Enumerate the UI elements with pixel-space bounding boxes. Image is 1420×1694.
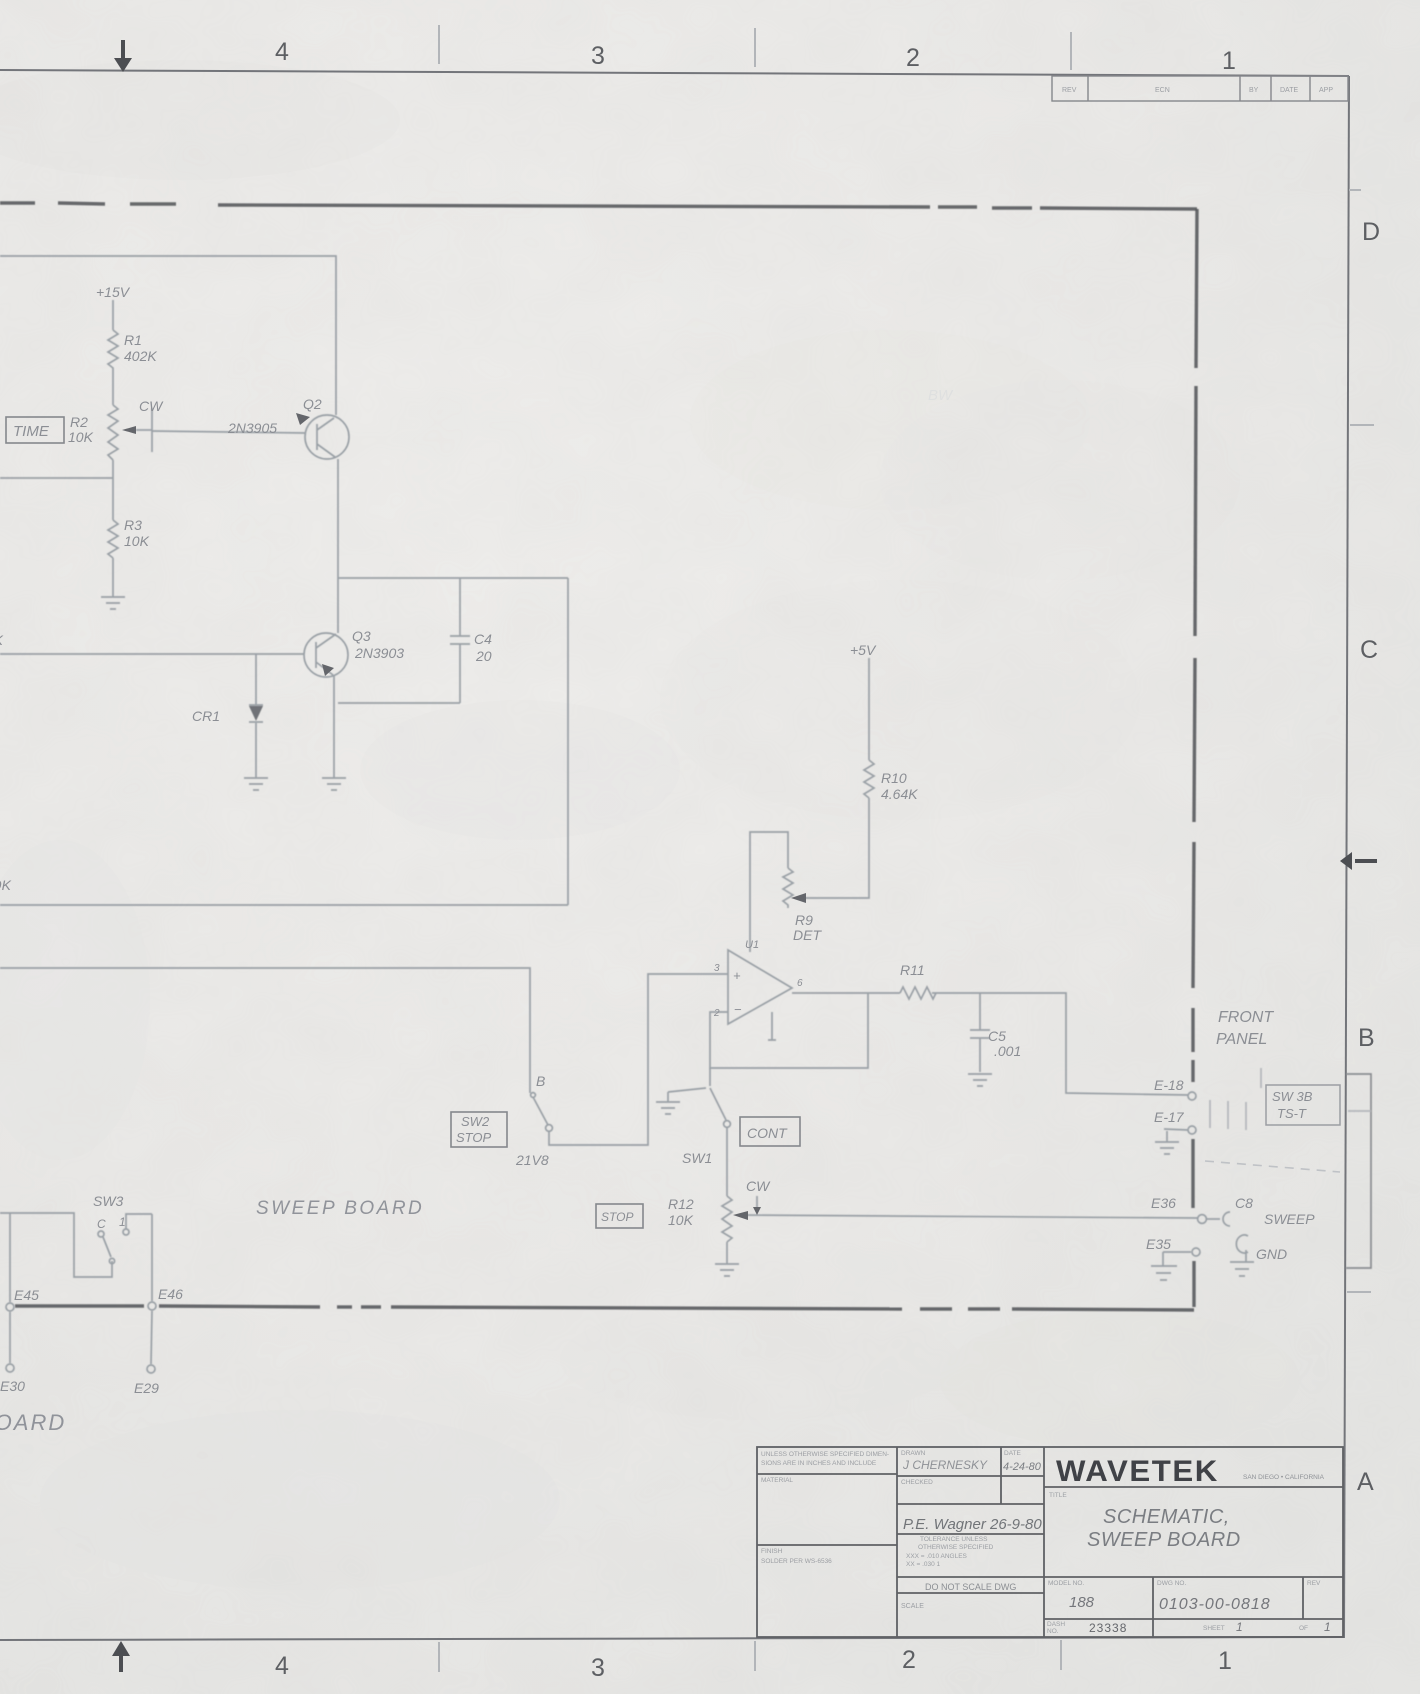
capacitor C5 (979, 993, 981, 1030)
CW arrowhead R12 (753, 1207, 761, 1215)
svg-text:R11: R11 (900, 962, 925, 978)
svg-text:UNLESS OTHERWISE SPECIFIED DIM: UNLESS OTHERWISE SPECIFIED DIMEN- (761, 1451, 889, 1458)
svg-text:ECN: ECN (1155, 87, 1170, 94)
zone tick top 2|1 (1070, 32, 1072, 70)
wire: C4 bottom rail (338, 702, 460, 704)
svg-text:402K: 402K (124, 348, 157, 364)
svg-text:10K: 10K (68, 429, 94, 445)
svg-text:1: 1 (1324, 1620, 1331, 1634)
wiper arrow R2 (136, 429, 152, 431)
column dividers (896, 1447, 898, 1637)
right border line (1344, 76, 1349, 1638)
top border line (0, 70, 1349, 76)
svg-text:SW3: SW3 (93, 1193, 124, 1209)
svg-text:CHECKED: CHECKED (901, 1479, 933, 1486)
resistor R10 (864, 760, 874, 798)
svg-text:SWEEP BOARD: SWEEP BOARD (1087, 1529, 1241, 1551)
svg-text:BW: BW (928, 387, 954, 404)
bottom border line (0, 1637, 1344, 1640)
connector E-18 (1188, 1092, 1196, 1100)
diode CR1 (249, 705, 263, 722)
svg-text:BOARD: BOARD (0, 1410, 66, 1435)
connector E30 (6, 1364, 14, 1372)
op-amp U1 (728, 950, 792, 1024)
svg-text:DO NOT SCALE DWG: DO NOT SCALE DWG (925, 1582, 1016, 1592)
svg-text:TIME: TIME (13, 423, 50, 440)
svg-text:E46: E46 (158, 1286, 183, 1302)
label SW 3B box (1266, 1085, 1340, 1125)
transistor Q2 (305, 415, 349, 459)
svg-text:MATERIAL: MATERIAL (761, 1477, 793, 1484)
wire: Q3 emitter to ground (333, 675, 335, 778)
potentiometer R12 (722, 1196, 732, 1242)
wire: inverting input / feedback loop (710, 993, 868, 1068)
svg-text:1: 1 (1236, 1620, 1243, 1634)
svg-text:20: 20 (475, 648, 492, 664)
svg-text:C4: C4 (474, 631, 492, 647)
svg-text:PANEL: PANEL (1216, 1031, 1267, 1048)
resistor R11 (900, 987, 936, 999)
wire: R1 to R2 (112, 370, 114, 405)
svg-text:SW1: SW1 (682, 1150, 712, 1166)
svg-text:J CHERNESKY: J CHERNESKY (902, 1458, 988, 1472)
svg-text:21V8: 21V8 (515, 1152, 549, 1168)
svg-text:SW2: SW2 (461, 1114, 490, 1129)
svg-text:R12: R12 (668, 1196, 694, 1212)
wire: Q2 collector to Q3 collector (337, 459, 339, 633)
svg-text:E29: E29 (134, 1380, 159, 1396)
svg-text:3: 3 (714, 963, 720, 974)
svg-text:TOLERANCE UNLESS: TOLERANCE UNLESS (920, 1536, 988, 1543)
svg-text:CONT: CONT (747, 1125, 788, 1141)
alignment arrow top (114, 40, 132, 72)
svg-text:P.E. Wagner 26-9-80: P.E. Wagner 26-9-80 (903, 1516, 1042, 1533)
svg-text:SHEET: SHEET (1203, 1625, 1225, 1632)
zone tick top 3|2 (754, 28, 756, 67)
svg-text:DATE: DATE (1004, 1450, 1022, 1457)
revision table top right (1052, 76, 1348, 101)
svg-text:E36: E36 (1151, 1195, 1176, 1211)
wiper arrowhead R2 (122, 426, 136, 434)
svg-text:Q3: Q3 (352, 628, 371, 644)
svg-text:CW: CW (139, 398, 164, 414)
wire: ramp rail y578 (338, 577, 568, 579)
left column rows (757, 1473, 897, 1475)
svg-text:49K: 49K (0, 877, 12, 893)
svg-text:REV: REV (1307, 1580, 1321, 1587)
wire: R2 to R3 junction (112, 460, 114, 520)
svg-text:R3: R3 (124, 517, 142, 533)
svg-text:E-17: E-17 (1154, 1109, 1185, 1125)
svg-text:DASH: DASH (1047, 1621, 1065, 1628)
power +15V lead (112, 300, 114, 330)
ground below Q3 (322, 778, 346, 790)
wiper arrowhead R12 (733, 1211, 748, 1220)
ground below C5 (968, 1074, 992, 1086)
ground at SW1 (668, 1088, 706, 1102)
svg-text:3: 3 (591, 42, 605, 70)
svg-text:NO.: NO. (1047, 1628, 1059, 1635)
wire: rail y968 to SW2 (0, 968, 530, 1093)
wire: right dashed vertical (1196, 209, 1197, 368)
svg-text:WAVETEK: WAVETEK (1056, 1455, 1219, 1488)
wire: top dashed run (0, 201, 35, 204)
wire: SW1 to R12 (726, 1127, 728, 1196)
emitter arrow Q3 (322, 664, 334, 676)
svg-text:4: 4 (275, 38, 289, 66)
svg-text:E35: E35 (1146, 1236, 1171, 1252)
svg-text:C5: C5 (988, 1028, 1006, 1044)
wire: E45 drop (9, 1213, 11, 1302)
svg-text:188: 188 (1069, 1594, 1095, 1611)
wire: Q3 base rail (0, 653, 304, 655)
wire: R2 wiper to Q2 base (152, 431, 305, 433)
svg-text:+15V: +15V (96, 284, 131, 300)
zone tick top 4|3 (438, 25, 440, 64)
connector pins after E-18 (1210, 1068, 1261, 1130)
alignment arrow right (1340, 852, 1377, 870)
resistor R3 (108, 520, 118, 558)
svg-text:.001: .001 (994, 1043, 1021, 1059)
svg-text:1: 1 (119, 1215, 126, 1229)
svg-text:SCHEMATIC,: SCHEMATIC, (1103, 1506, 1230, 1528)
zone tick bottom 2|1 (1060, 1640, 1062, 1670)
svg-text:0103-00-0818: 0103-00-0818 (1159, 1596, 1271, 1613)
switch SW3 (98, 1231, 104, 1237)
front panel connector bracket (1346, 1074, 1371, 1268)
svg-text:FRONT: FRONT (1218, 1009, 1274, 1026)
svg-text:U1: U1 (745, 939, 759, 951)
svg-text:B: B (1358, 1024, 1375, 1052)
svg-text:R2: R2 (70, 414, 88, 430)
resistor R1 (108, 330, 118, 370)
svg-text:−: − (734, 1002, 742, 1017)
wire: long rail y905 (0, 904, 568, 906)
wire: E45 to E30 (9, 1312, 11, 1363)
connector E45 (6, 1303, 14, 1311)
svg-text:SIONS ARE IN INCHES AND INCLUD: SIONS ARE IN INCHES AND INCLUDE (761, 1460, 877, 1467)
CW arrow at R12 (756, 1196, 758, 1208)
svg-text:A: A (1357, 1468, 1374, 1496)
ground below CR1 (244, 778, 268, 790)
svg-text:R10: R10 (881, 770, 907, 786)
svg-text:2: 2 (713, 1008, 720, 1019)
svg-text:MODEL NO.: MODEL NO. (1048, 1580, 1084, 1587)
op-amp V- pin lead (768, 1012, 776, 1040)
middle column rows (897, 1475, 1044, 1477)
wiper arrowhead R9 (791, 893, 806, 903)
svg-text:SAN DIEGO • CALIFORNIA: SAN DIEGO • CALIFORNIA (1243, 1474, 1325, 1481)
svg-text:2: 2 (902, 1646, 916, 1674)
svg-text:GND: GND (1256, 1246, 1287, 1262)
ground below E35 (1162, 1252, 1164, 1266)
svg-text:2: 2 (906, 44, 920, 72)
wire: to E46 (151, 1214, 153, 1301)
svg-text:APP: APP (1319, 87, 1333, 94)
wire: faint dash divider (1205, 1161, 1340, 1172)
svg-text:+5V: +5V (850, 642, 877, 658)
connector E35 (1192, 1248, 1200, 1256)
svg-text:2N3903: 2N3903 (354, 645, 404, 661)
label CONT box (740, 1117, 800, 1146)
wire: bottom-left rail to SW3 (0, 1213, 112, 1277)
model / dwg numbers (1069, 1594, 1331, 1635)
svg-text:R1: R1 (124, 332, 142, 348)
svg-text:4: 4 (275, 1652, 289, 1680)
svg-text:1: 1 (1222, 47, 1236, 75)
svg-text:C8: C8 (1235, 1195, 1253, 1211)
wire: R12 wiper to E36 (740, 1215, 1197, 1218)
zone tick right D|C (1350, 424, 1374, 426)
wire: R3 to ground (112, 558, 114, 597)
svg-text:E-18: E-18 (1154, 1077, 1184, 1093)
switch SW1 (709, 1068, 711, 1086)
svg-text:6: 6 (797, 978, 803, 989)
wire: E46 to E29 (151, 1311, 152, 1364)
svg-text:R9: R9 (795, 912, 813, 928)
wire: R11 to E-18 (932, 993, 1188, 1095)
svg-text:CR1: CR1 (192, 708, 220, 724)
svg-text:DET: DET (793, 927, 822, 943)
ground below R12 (715, 1264, 739, 1276)
wire: CR1 branch (255, 654, 257, 705)
wire: C4 right vertical (567, 578, 569, 905)
svg-text:1: 1 (1218, 1647, 1232, 1675)
transistor Q3 (304, 633, 348, 677)
svg-text:FINISH: FINISH (761, 1548, 783, 1555)
svg-text:DWG NO.: DWG NO. (1157, 1580, 1186, 1587)
wire: R10 to R9 wiper (800, 798, 869, 898)
ground below R3 (101, 597, 125, 609)
svg-text:DATE: DATE (1280, 87, 1298, 94)
right section rows (1044, 1486, 1343, 1488)
svg-text:TS-T: TS-T (1277, 1106, 1307, 1121)
label STOP box (596, 1204, 643, 1228)
svg-text:SW 3B: SW 3B (1272, 1089, 1313, 1104)
svg-text:3: 3 (591, 1654, 605, 1682)
wire: left tap y478 (0, 477, 113, 479)
svg-text:+: + (733, 968, 741, 983)
svg-text:BY: BY (1249, 87, 1259, 94)
svg-text:C: C (97, 1217, 106, 1231)
potentiometer R9 (750, 832, 788, 952)
svg-text:XX = .030 1: XX = .030 1 (906, 1561, 941, 1568)
switch SW2 (531, 1093, 536, 1098)
svg-text:STOP: STOP (456, 1130, 491, 1145)
wire: CR1 to ground (255, 723, 257, 778)
svg-text:B: B (536, 1073, 545, 1089)
svg-text:OF: OF (1299, 1625, 1308, 1632)
svg-text:Q2: Q2 (303, 396, 322, 412)
alignment arrow bottom (112, 1641, 130, 1672)
svg-text:4-24-80: 4-24-80 (1003, 1461, 1042, 1473)
svg-text:XXX = .010 ANGLES: XXX = .010 ANGLES (906, 1553, 968, 1560)
wire: R12 to ground (726, 1242, 728, 1264)
potentiometer R2 (108, 405, 118, 460)
power +5V lead (868, 658, 870, 760)
svg-text:STOP: STOP (601, 1210, 633, 1224)
svg-text:SOLDER PER WS-6536: SOLDER PER WS-6536 (761, 1558, 832, 1565)
zone tick bottom 4|3 (438, 1642, 440, 1672)
hand written title (1087, 1506, 1241, 1551)
svg-text:4.64K: 4.64K (881, 786, 918, 802)
wire: SW2 to op-amp + input (549, 974, 728, 1145)
wire: top-left rail (0, 256, 336, 415)
svg-text:C: C (1360, 636, 1378, 664)
label SW2 STOP box (451, 1112, 507, 1147)
svg-text:SWEEP: SWEEP (1264, 1211, 1315, 1227)
ground below BNC (1230, 1262, 1254, 1276)
svg-text:10K: 10K (668, 1212, 694, 1228)
ground below E-17 (1166, 1131, 1168, 1142)
CW tick near R2 (151, 408, 153, 452)
svg-text:TITLE: TITLE (1049, 1492, 1067, 1499)
svg-text:E30: E30 (0, 1378, 25, 1394)
capacitor C4 (459, 578, 461, 636)
svg-text:D: D (1362, 218, 1380, 246)
zone tick bottom 3|2 (754, 1641, 756, 1671)
connector E46 (148, 1302, 156, 1310)
svg-text:E45: E45 (14, 1287, 39, 1303)
BNC jack SWEEP (1223, 1212, 1230, 1226)
svg-text:23338: 23338 (1089, 1621, 1127, 1635)
svg-text:SCALE: SCALE (901, 1603, 924, 1610)
emitter arrow Q2 (296, 413, 310, 425)
svg-text:REV: REV (1062, 87, 1077, 94)
svg-text:10K: 10K (124, 533, 150, 549)
zone tick right B|A (1347, 1291, 1371, 1293)
svg-text:2N3905: 2N3905 (227, 420, 277, 436)
connector E29 (147, 1365, 155, 1373)
svg-text:DRAWN: DRAWN (901, 1450, 926, 1457)
svg-text:CW: CW (746, 1178, 771, 1194)
dark arrows on pots / transistor emitters (122, 413, 806, 1220)
connector E-17 (1188, 1126, 1196, 1134)
wire: op-amp output (792, 992, 900, 994)
wire: bottom dashed run (15, 1304, 144, 1307)
label TIME box (6, 417, 64, 443)
svg-text:SWEEP BOARD: SWEEP BOARD (256, 1198, 424, 1219)
connector E36 (1198, 1215, 1207, 1224)
svg-text:OTHERWISE SPECIFIED: OTHERWISE SPECIFIED (918, 1544, 994, 1551)
